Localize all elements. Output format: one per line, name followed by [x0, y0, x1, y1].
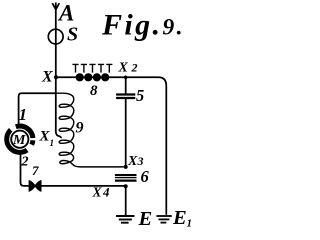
svg-text:M: M [12, 133, 26, 148]
wire capacitor 5 down to node X3 [125, 99, 127, 167]
node X2 [124, 76, 128, 80]
node X4 [124, 184, 128, 188]
svg-text:E: E [172, 207, 187, 229]
node X [54, 75, 58, 79]
wire main horizontal from X to right corner and down to E1 [56, 77, 167, 215]
svg-text:X: X [127, 154, 138, 169]
svg-text:8: 8 [90, 83, 98, 99]
capacitor C5 [116, 95, 135, 99]
svg-text:7: 7 [32, 163, 39, 178]
motor M stator ring [7, 126, 33, 152]
svg-text:2: 2 [131, 61, 138, 75]
svg-text:1: 1 [187, 218, 193, 230]
svg-text:X: X [118, 61, 129, 76]
svg-text:9: 9 [76, 120, 84, 137]
svg-text:A: A [57, 1, 74, 26]
ground E1 [156, 216, 171, 223]
wire motor bottom to lower horizontal [21, 152, 126, 186]
svg-text:1: 1 [19, 105, 28, 124]
antenna A lead with arrow [52, 3, 59, 78]
svg-text:5: 5 [136, 86, 144, 105]
wire tap from X down to coil tap X1 [56, 77, 61, 138]
wire X2 down to capacitor 5 [125, 77, 127, 93]
svg-text:E: E [138, 208, 153, 229]
coil 9 [56, 93, 124, 167]
wire X4 down to ground E [125, 186, 127, 215]
node X3 [124, 165, 128, 169]
svg-text:6: 6 [141, 167, 150, 186]
contact chain 8 (four studs with posts) [72, 64, 112, 81]
title Fig.9. [101, 9, 185, 42]
svg-text:2: 2 [21, 155, 29, 170]
svg-text:3: 3 [137, 154, 144, 168]
interrupter 7 (bowtie) [29, 180, 41, 191]
ground E [116, 216, 134, 223]
capacitor C6 [115, 175, 137, 181]
motor M armature circle [11, 131, 28, 148]
wire left branch from coil junction to motor [19, 93, 56, 127]
meter S (circle) [48, 29, 63, 44]
svg-text:1: 1 [50, 138, 55, 148]
svg-text:S: S [67, 24, 78, 46]
svg-text:X: X [41, 69, 53, 86]
